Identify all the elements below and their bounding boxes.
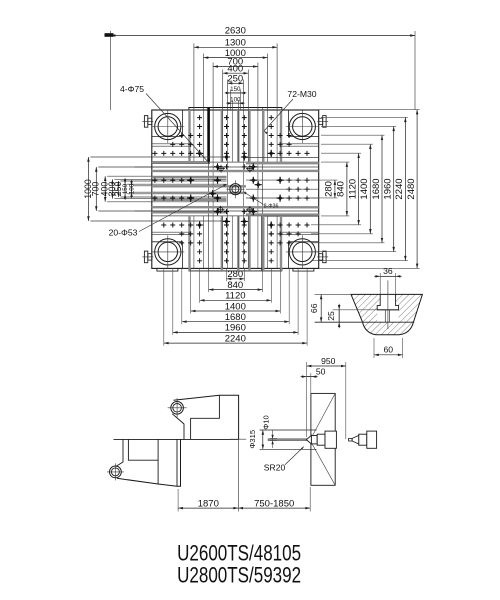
svg-text:150: 150 bbox=[230, 86, 241, 93]
nozzle dim extension lines bbox=[306, 362, 308, 437]
larger clamp holes (star marks) bbox=[196, 150, 203, 157]
T-slot bands bottom band bbox=[188, 216, 190, 271]
svg-text:25: 25 bbox=[326, 311, 336, 321]
tie bar hole top-left bbox=[155, 113, 181, 139]
central square line h top bbox=[209, 161, 319, 163]
dimension 1400 right bbox=[369, 144, 371, 234]
slot line v 700R bbox=[257, 110, 259, 268]
svg-text:2630: 2630 bbox=[225, 26, 246, 37]
svg-text:1120: 1120 bbox=[347, 179, 358, 199]
dimension 280 right bbox=[334, 180, 336, 198]
tie bar hole top-right bbox=[289, 113, 315, 139]
T-slot bands top band bbox=[188, 110, 190, 162]
platen front view outline bbox=[152, 110, 319, 268]
platen bottom boss edge bbox=[189, 268, 282, 271]
central square line v right bbox=[261, 108, 263, 216]
svg-text:SR20: SR20 bbox=[264, 463, 286, 473]
dimension 400 top bbox=[223, 72, 249, 74]
dimension 150 left bbox=[124, 184, 126, 194]
clamp tab bottom-right bbox=[323, 251, 326, 263]
phi315 extent lines bbox=[260, 429, 317, 431]
dimension 60 section bbox=[374, 354, 403, 356]
svg-text:Φ315: Φ315 bbox=[248, 430, 257, 449]
dimension 1120 bottom bbox=[200, 299, 272, 301]
shadow line vertical left of top band bbox=[207, 108, 210, 163]
dimension 1870 bbox=[178, 507, 238, 509]
svg-text:1120: 1120 bbox=[225, 291, 245, 302]
dimension 280 bottom bbox=[227, 278, 245, 280]
dimension 250 left bbox=[117, 181, 119, 197]
dimension 66 section bbox=[320, 294, 322, 322]
shadow line horizontal top of left band bbox=[152, 161, 209, 164]
fixed platen bracket outline bbox=[174, 395, 239, 439]
svg-text:950: 950 bbox=[321, 356, 336, 366]
svg-text:100: 100 bbox=[128, 183, 135, 194]
svg-text:1960: 1960 bbox=[225, 323, 246, 334]
section sprue channel bbox=[384, 310, 386, 322]
svg-text:20-Φ53: 20-Φ53 bbox=[109, 228, 138, 238]
dimension 1120 right bbox=[358, 153, 360, 225]
dimension 1680 right bbox=[381, 135, 383, 243]
svg-text:66: 66 bbox=[309, 303, 319, 313]
nozzle assembly 2 bbox=[349, 438, 353, 441]
bottom dim extension lines bbox=[177, 489, 179, 512]
svg-text:250: 250 bbox=[227, 74, 243, 85]
right band T-slot lines bbox=[246, 157, 319, 159]
bed centre tick bbox=[230, 438, 246, 440]
inner hole rows centre square bbox=[224, 164, 229, 169]
section cup hatched area bbox=[345, 290, 427, 340]
nozzle assembly 1 bbox=[306, 435, 311, 444]
locating ring circle bbox=[230, 184, 241, 195]
section top ext line bbox=[315, 293, 351, 295]
section slot bottom line bbox=[377, 309, 398, 311]
dimension 36 section bbox=[380, 275, 395, 277]
dimension 1300 top bbox=[194, 46, 277, 48]
svg-text:8-Φ36: 8-Φ36 bbox=[264, 204, 279, 210]
right dimension extension lines bbox=[311, 179, 337, 181]
corner pad lines bottom-right bbox=[288, 242, 318, 269]
svg-text:1680: 1680 bbox=[225, 312, 246, 323]
dimension 1000 left bbox=[87, 157, 89, 221]
dimension 2240 bottom bbox=[164, 342, 307, 344]
svg-text:U2800TS/59392: U2800TS/59392 bbox=[177, 562, 301, 587]
dimension 1000 top bbox=[204, 57, 268, 59]
moving platen tie bar circle bbox=[110, 466, 122, 478]
nozzle platen rect bbox=[311, 393, 335, 485]
dimension 400 left bbox=[104, 176, 106, 202]
8-phi36 hole circles bbox=[219, 166, 224, 171]
clamp tab top-right bbox=[323, 116, 326, 128]
left band T-slot lines bbox=[90, 156, 226, 158]
dimension 840 bottom bbox=[209, 289, 263, 291]
moving platen bracket outline bbox=[116, 439, 123, 466]
shadow line vertical right of bottom band bbox=[261, 216, 263, 271]
dimension 750-1850 bbox=[238, 507, 310, 509]
tie bar hole bottom-left bbox=[155, 239, 181, 265]
corner pad lines top-left bbox=[152, 110, 183, 137]
bottom dimension extension lines bbox=[226, 268, 228, 281]
band boundary lines near pads bbox=[152, 143, 191, 145]
slot line v 250L bbox=[227, 110, 229, 268]
slot line v 250R bbox=[243, 110, 245, 268]
clamp tab bottom-left bbox=[144, 251, 147, 263]
svg-text:2480: 2480 bbox=[406, 178, 417, 199]
svg-text:2240: 2240 bbox=[225, 333, 246, 344]
section recess line bbox=[315, 321, 415, 323]
svg-text:1680: 1680 bbox=[371, 178, 382, 199]
slot line v 700L bbox=[212, 110, 214, 268]
top dimension extension lines bbox=[110, 31, 112, 110]
slot line h 700 bottom bbox=[135, 210, 319, 212]
svg-text:1400: 1400 bbox=[359, 178, 370, 199]
foot under bottom-right pad bbox=[293, 268, 314, 271]
dimension 50 nozzle bbox=[307, 376, 312, 378]
dimension 300 left bbox=[111, 179, 113, 198]
dimension 250 top bbox=[228, 82, 244, 84]
svg-text:280: 280 bbox=[324, 181, 335, 197]
svg-text:1870: 1870 bbox=[198, 498, 219, 509]
left band T-slot gray bands bbox=[152, 161, 208, 163]
svg-text:750-1850: 750-1850 bbox=[254, 498, 294, 509]
fixed platen tie bar circle bbox=[171, 402, 184, 415]
svg-text:50: 50 bbox=[316, 366, 326, 376]
corner pad lines top-right bbox=[288, 110, 318, 137]
svg-text:280: 280 bbox=[227, 269, 243, 280]
dimension 2480 right bbox=[416, 110, 418, 269]
dimension 840 right bbox=[346, 162, 348, 216]
svg-text:72-M30: 72-M30 bbox=[287, 89, 316, 99]
dimension 150 top bbox=[231, 92, 241, 94]
dimension 1960 bottom bbox=[173, 331, 298, 333]
central square line h bottom bbox=[152, 215, 263, 217]
svg-text:36: 36 bbox=[383, 266, 393, 276]
clamp tab top-left bbox=[144, 116, 147, 128]
svg-text:100: 100 bbox=[230, 97, 241, 104]
2630 left end tick bbox=[105, 33, 114, 37]
svg-text:Φ10: Φ10 bbox=[261, 415, 270, 430]
platen top boss edge bbox=[189, 108, 282, 111]
svg-text:1400: 1400 bbox=[225, 301, 246, 312]
M30 tapped hole pattern (+) bbox=[197, 115, 202, 120]
dimension 2240 right bbox=[404, 117, 406, 260]
svg-text:2240: 2240 bbox=[394, 178, 405, 199]
section cup outline bbox=[351, 294, 422, 334]
dimension 1400 bottom bbox=[191, 310, 281, 312]
tie bar hole bottom-right bbox=[289, 239, 315, 265]
foot under bottom-left pad bbox=[157, 268, 178, 271]
svg-text:840: 840 bbox=[336, 181, 347, 197]
dimension 100 top bbox=[232, 102, 238, 104]
side view bed line bbox=[114, 438, 239, 440]
corner pad lines bottom-left bbox=[152, 242, 183, 269]
dimension 2630 top bbox=[111, 35, 415, 37]
slot line h 700 top bbox=[135, 166, 319, 168]
svg-text:4-Φ75: 4-Φ75 bbox=[120, 84, 144, 94]
dimension 700 top bbox=[213, 66, 258, 68]
dimension 1680 bottom bbox=[182, 321, 289, 323]
injection screw rod bbox=[268, 439, 307, 441]
top band thin slot lines bbox=[193, 110, 195, 162]
section T-slot profile bbox=[377, 294, 398, 309]
nozzle rect diagonals bbox=[310, 393, 335, 440]
central square line v left bbox=[208, 162, 210, 271]
dimension 950 nozzle bbox=[307, 365, 346, 367]
bottom band thin slot lines bbox=[193, 216, 195, 269]
svg-text:1960: 1960 bbox=[383, 178, 394, 199]
dimension 1960 right bbox=[393, 126, 395, 251]
section centreline bbox=[387, 280, 389, 329]
svg-text:60: 60 bbox=[384, 345, 394, 355]
shadow line horizontal bottom of right band bbox=[262, 214, 318, 216]
dimension 25 section bbox=[338, 310, 340, 322]
dimension 700 left bbox=[95, 167, 97, 211]
dimension 100 left bbox=[131, 186, 133, 192]
svg-text:840: 840 bbox=[227, 280, 243, 291]
